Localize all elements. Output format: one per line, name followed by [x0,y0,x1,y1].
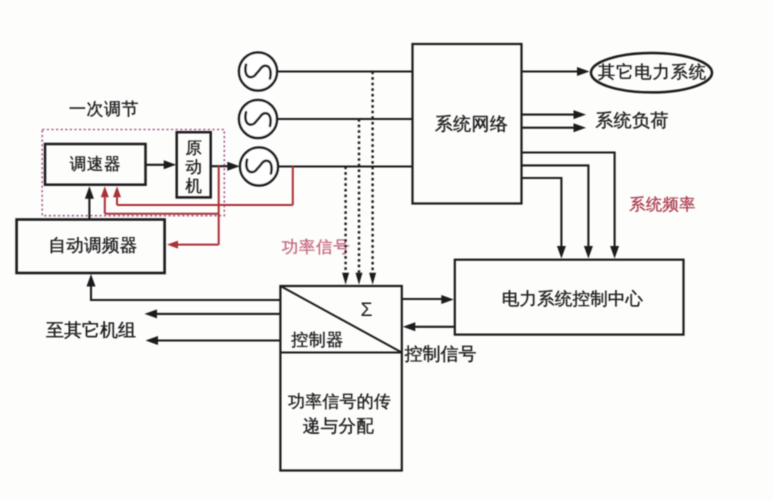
label 控制器 [291,331,342,347]
wire 控制器 to 自动调频器 [87,274,281,300]
label 系统网络 [435,115,507,132]
box 系统网络 [413,44,522,204]
label 递与分配 [303,417,374,434]
box 原动机 [177,132,211,197]
wire 系统频率 1 (outer) [522,153,620,259]
arrow 系统网络 to 其它电力系统 [522,67,590,76]
arrow 自动调频器 to 调速器 [85,186,94,219]
label 系统频率 (red) [630,196,695,212]
label 调速器 [70,156,120,172]
wire G3 to 系统网络 [278,165,413,167]
arrow 系统负荷 upper [522,110,587,119]
diagonal line in 控制器 box [280,286,401,353]
box 电力系统控制中心 [455,260,684,335]
red wire drop from 原动机 output [218,166,220,245]
label 一次调节 [70,101,138,117]
divider line in 控制器 box [280,352,401,354]
label 控制信号 [405,345,476,362]
arrow 系统负荷 lower [522,123,587,132]
generator G2 [239,100,277,138]
svg-text:Σ: Σ [360,299,372,321]
arrow 至其它机组 upper [145,309,281,318]
label 其它电力系统 [598,63,705,80]
arrow 调速器 to 原动机 [146,160,177,169]
label 至其它机组 [46,321,135,339]
generator G3 [240,148,278,186]
dotted wire G1 sample [369,72,376,285]
generator G1 [239,53,277,91]
dashed group box 一次调节 [42,130,224,216]
label 原动机 (vertical) [185,141,201,194]
label 电力系统控制中心 [503,290,643,307]
wire G1 to 系统网络 [277,70,413,72]
red arrow into 自动调频器 [167,241,219,249]
red arrow into 调速器 (right) [113,186,121,205]
label 自动调频器 [51,237,137,254]
ellipse 其它电力系统 [591,53,712,92]
wire 系统频率 3 (inner) [522,178,566,259]
box 控制器/summation [280,286,401,471]
red wire horizontal to 调速器 [117,204,293,206]
label 系统负荷 [596,111,668,129]
wire 系统频率 2 (middle) [522,165,593,258]
arrow 至其它机组 lower [146,336,281,345]
dotted wire G3 sample [342,167,349,285]
label 功率信号 (red) [282,238,349,254]
box 自动调频器 [17,220,165,274]
box 调速器 [45,144,146,185]
arrow 控制中心 to 控制器 (控制信号) [403,322,455,331]
red wire horizontal to 调速器 (lower) [105,213,219,215]
arrow 控制器 to 控制中心 [402,295,454,304]
label 功率信号的传 [288,393,390,410]
wire G2 to 系统网络 [277,118,413,120]
arrow 原动机 to G3 [211,162,240,171]
red arrow into 调速器 (left) [101,186,109,214]
dotted wire G2 sample [356,119,363,285]
red wire drop from G3 line [292,167,294,206]
